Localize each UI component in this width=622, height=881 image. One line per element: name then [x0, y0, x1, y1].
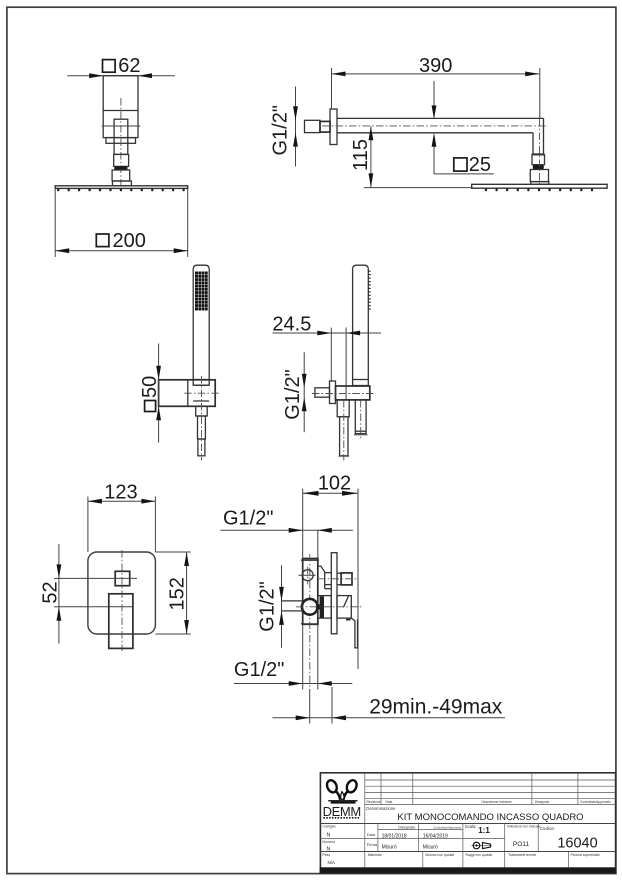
- dim 115 top arrow: [369, 126, 374, 140]
- hose: [198, 439, 205, 456]
- G1/2 left lower arrow: [279, 611, 284, 625]
- lever handle: [351, 618, 357, 648]
- stub square end: [341, 573, 352, 585]
- upper stub left of plate: [325, 572, 332, 574]
- dimension 390 line: [332, 73, 540, 75]
- logo dots row: [323, 817, 360, 819]
- ext 102 right long: [357, 489, 359, 669]
- svg-text:Materiale: Materiale: [368, 853, 382, 857]
- G1/2 bottom right arrow: [318, 681, 332, 686]
- sq50 lower arrow: [156, 406, 161, 420]
- denominazione row: [320, 823, 616, 825]
- body joint line: [193, 379, 209, 381]
- handle below holder: [355, 400, 366, 434]
- svg-text:Data: Data: [367, 832, 376, 837]
- arm tube bottom line: [337, 132, 533, 134]
- logo pedestal bar: [328, 800, 357, 801]
- horizontal centerline: [322, 125, 548, 127]
- sq25 leader upper: [433, 81, 435, 105]
- dimension 115 line: [370, 126, 372, 187]
- port stub lines: [282, 600, 303, 602]
- ext lines 152: [155, 551, 190, 553]
- 152 dim line: [186, 552, 188, 634]
- dim 390 left arrow: [332, 72, 346, 77]
- svg-text:Revisione: Revisione: [367, 800, 381, 804]
- dimension 62 left arrow: [89, 73, 103, 78]
- svg-text:25: 25: [469, 154, 491, 176]
- svg-text:Raggi non quotati: Raggi non quotati: [466, 853, 493, 857]
- title block outer border: [320, 773, 615, 873]
- elbow right edge: [543, 118, 545, 154]
- holder inner edge: [187, 380, 189, 407]
- svg-text:Cartiglio: Cartiglio: [322, 825, 335, 829]
- holder horizontal centerline: [312, 393, 375, 395]
- arm tube: [114, 119, 128, 154]
- ext line 24.5 left: [330, 328, 332, 382]
- ext line 24.5 right: [345, 328, 347, 400]
- centerline solid below: [309, 689, 311, 724]
- dark connector square: [316, 604, 320, 609]
- svg-text:62: 62: [118, 55, 140, 77]
- svg-text:52: 52: [40, 581, 62, 603]
- svg-text:115: 115: [350, 139, 372, 171]
- svg-text:Denominazione: Denominazione: [366, 806, 396, 811]
- svg-text:N: N: [327, 833, 331, 839]
- dimension square-62 text: [103, 60, 116, 73]
- DEMM logo mark: [325, 779, 358, 794]
- ext 102 left upper: [302, 489, 304, 559]
- svg-text:Finitura superficiale: Finitura superficiale: [571, 853, 601, 857]
- mid block right of plate: [337, 596, 351, 619]
- hand shower body: [193, 265, 209, 385]
- svg-text:Scala:: Scala:: [465, 824, 477, 829]
- 102 left arrow: [303, 491, 319, 496]
- 29-49 dim line: [272, 717, 505, 719]
- nipple thread block: [320, 121, 330, 132]
- handle cap line: [355, 430, 366, 432]
- wall flange side: [330, 381, 336, 404]
- tube joint line: [532, 153, 545, 155]
- spray face grid: [195, 272, 208, 311]
- svg-text:102: 102: [318, 473, 351, 495]
- holder body side: [336, 386, 370, 400]
- ball joint cup: [530, 170, 548, 182]
- handle end tick: [354, 434, 368, 436]
- head plate: [472, 184, 607, 188]
- sq25 shelf line: [434, 173, 494, 175]
- main vertical centerline: [309, 554, 311, 689]
- vertical centerline: [201, 376, 203, 460]
- body right edge upper ext: [317, 530, 319, 558]
- holder bracket: [159, 380, 216, 407]
- hose centerline: [343, 400, 345, 460]
- middle port circle: [302, 599, 318, 615]
- svg-text:29min.-49max: 29min.-49max: [369, 696, 503, 719]
- top port crosshair: [298, 574, 315, 576]
- drop tube nut: [532, 155, 545, 165]
- 52 dim line: [58, 544, 60, 644]
- svg-text:1:1: 1:1: [478, 826, 490, 835]
- dark joint band: [114, 166, 127, 170]
- projection symbol: [473, 842, 480, 849]
- wall flange: [330, 109, 337, 145]
- svg-text:50: 50: [139, 376, 161, 398]
- sq25 leader lower: [433, 147, 435, 174]
- lever tick: [346, 619, 351, 621]
- top port circle: [302, 570, 313, 581]
- mid block vertical dividers: [364, 824, 366, 852]
- dimension 200 line: [55, 250, 188, 252]
- revision rows: [365, 779, 616, 781]
- 29-49 right arrow: [332, 715, 346, 720]
- svg-text:Disegnato: Disegnato: [535, 800, 550, 804]
- sq50 dim line: [158, 344, 160, 443]
- handle taper: [198, 416, 206, 439]
- spray ticks: [368, 270, 370, 272]
- svg-text:Peso: Peso: [322, 853, 330, 857]
- svg-text:Numero: Numero: [322, 840, 335, 844]
- spray nozzles: [485, 188, 487, 191]
- svg-text:123: 123: [104, 482, 137, 504]
- svg-text:N: N: [327, 847, 331, 853]
- 52 text rotated: [40, 581, 62, 603]
- ext line 390 right: [539, 68, 541, 119]
- vertical centerline: [120, 98, 122, 185]
- G1/2 top dim line: [220, 529, 353, 531]
- 24.5 right arrow: [346, 331, 360, 336]
- 29-49 ext right: [331, 687, 333, 724]
- svg-text:Controllato/Approvato: Controllato/Approvato: [433, 825, 461, 829]
- wall plate side view: [331, 553, 337, 634]
- logo cell right edge: [364, 773, 366, 824]
- hose side: [340, 417, 348, 456]
- 52 upper arrow: [57, 564, 62, 578]
- G1/2 dim line: [303, 352, 305, 432]
- hose end tick: [339, 455, 350, 457]
- 123 left arrow: [88, 499, 102, 504]
- svg-text:PO11: PO11: [513, 841, 530, 848]
- nipple side: [315, 388, 330, 397]
- 102 right arrow: [342, 491, 358, 496]
- G1/2 vertical dim line: [295, 87, 297, 167]
- mid block horizontal dividers: [378, 828, 463, 830]
- connector base: [113, 181, 132, 186]
- svg-text:24.5: 24.5: [272, 314, 311, 336]
- 24.5 dim line: [273, 332, 382, 334]
- 102 dim line: [303, 492, 359, 494]
- wall nipple pipe: [305, 120, 321, 132]
- 52 lower arrow: [57, 607, 62, 621]
- valve body: [303, 559, 318, 625]
- body edges extended below: [302, 624, 304, 689]
- vertical centerline elbow: [539, 119, 541, 184]
- svg-text:Trattamenti termici: Trattamenti termici: [508, 853, 536, 857]
- 152 text rotated: [166, 577, 188, 610]
- G1/2 top left arrow: [289, 528, 303, 533]
- arm tube top line: [337, 117, 544, 119]
- mid block left of plate: [318, 596, 332, 619]
- svg-text:200: 200: [113, 230, 146, 252]
- upper stub right of plate: [337, 572, 341, 574]
- G1/2 upper arrow: [293, 106, 298, 120]
- svg-text:Misuró: Misuró: [423, 844, 438, 850]
- G1/2 label rotated: [282, 369, 304, 419]
- G1/2 lower arrow: [293, 133, 298, 147]
- svg-text:G1/2": G1/2": [223, 508, 273, 530]
- svg-text:Data: Data: [386, 800, 393, 804]
- dim 115 bottom arrow: [369, 173, 374, 187]
- drop tube left edge: [532, 133, 534, 154]
- svg-text:Misuró: Misuró: [382, 844, 397, 850]
- outlet stub: [337, 400, 349, 417]
- horizontal centerline: [184, 392, 219, 394]
- ext line 115 bottom: [364, 187, 472, 189]
- lower reference line: [54, 606, 133, 608]
- middle port horizontal centerline: [296, 606, 362, 608]
- plate centerline vertical: [121, 550, 123, 651]
- lever diagonal in block: [343, 596, 348, 608]
- grip joint lines: [193, 384, 209, 386]
- sq50 text rotated: [139, 376, 161, 412]
- handle block below holder: [196, 406, 208, 416]
- handle centerline: [360, 400, 362, 440]
- svg-text:16040: 16040: [557, 835, 597, 851]
- svg-text:16/04/2019: 16/04/2019: [423, 833, 448, 839]
- svg-text:N/A: N/A: [328, 860, 336, 865]
- 152 bottom arrow: [184, 620, 189, 634]
- svg-text:Codice:: Codice:: [540, 826, 555, 831]
- spray nozzles: [57, 188, 59, 191]
- ext lines 123: [87, 497, 89, 553]
- bottom row dividers: [364, 852, 366, 868]
- G1/2 upper arrow: [302, 374, 307, 388]
- upper reference line: [54, 577, 137, 579]
- dimension square-200 text: [96, 234, 109, 247]
- svg-text:DEMM: DEMM: [323, 804, 361, 819]
- svg-text:Descrizione revisione: Descrizione revisione: [482, 800, 513, 804]
- svg-text:G1/2": G1/2": [269, 105, 291, 155]
- tube nut: [114, 154, 129, 166]
- svg-text:152: 152: [166, 577, 188, 610]
- svg-text:A TERMINI DI LEGGE QUESTO DISE: A TERMINI DI LEGGE QUESTO DISEGNO NON PU…: [321, 868, 614, 873]
- dimension 62 line: [67, 75, 175, 77]
- dimension 200 left arrow: [55, 248, 69, 253]
- shower head plate: [55, 186, 188, 189]
- G1/2 label rotated: [269, 105, 291, 155]
- svg-text:G1/2": G1/2": [282, 369, 304, 419]
- mixer plate: [88, 552, 155, 634]
- body bottom flange: [301, 623, 319, 625]
- svg-text:KIT MONOCOMANDO INCASSO QUADRO: KIT MONOCOMANDO INCASSO QUADRO: [397, 812, 583, 823]
- extension lines for dim 200: [54, 188, 56, 257]
- 123 right arrow: [141, 499, 155, 504]
- svg-text:Disegnato: Disegnato: [398, 825, 415, 829]
- dim 390 right arrow: [525, 72, 539, 77]
- 29-49 left arrow: [296, 715, 310, 720]
- ball joint cup: [112, 170, 130, 181]
- disclaimer bar: [320, 867, 616, 873]
- 152 top arrow: [184, 552, 189, 566]
- mixer handle front: [109, 594, 133, 649]
- svg-text:Smussi non quotati: Smussi non quotati: [425, 853, 454, 857]
- svg-text:G1/2": G1/2": [256, 581, 278, 631]
- connector base: [531, 182, 549, 185]
- ceiling mount bottom lip: [106, 138, 136, 144]
- 24.5 left arrow: [317, 331, 331, 336]
- ext line 390 left: [331, 68, 333, 109]
- stub centerline: [318, 578, 356, 580]
- dark joint band: [533, 165, 544, 170]
- G1/2 left upper arrow: [279, 587, 284, 601]
- svg-text:G1/2": G1/2": [234, 659, 284, 681]
- dimension 200 right arrow: [174, 248, 188, 253]
- dimension 62 right arrow: [138, 73, 152, 78]
- G1/2 bottom dim line: [234, 683, 352, 685]
- svg-text:Tolleranze non indicate: Tolleranze non indicate: [507, 825, 541, 829]
- G1/2 lower arrow: [302, 397, 307, 411]
- cartridge step: [318, 566, 325, 573]
- 123 dim line: [88, 500, 155, 502]
- svg-text:Controllato/Approvato: Controllato/Approvato: [580, 800, 611, 804]
- G1/2 top right arrow: [318, 528, 332, 533]
- G1/2 bottom left arrow: [289, 681, 303, 686]
- centerline tick: [102, 125, 141, 127]
- svg-text:18/01/2018: 18/01/2018: [382, 833, 407, 839]
- ceiling mount box: [103, 76, 138, 138]
- sq50 upper arrow: [156, 366, 161, 380]
- svg-text:Firma: Firma: [367, 842, 378, 847]
- dimension square-25 text: [454, 158, 467, 171]
- dim 115 text rotated: [350, 139, 372, 171]
- G1/2 left label rotated: [256, 581, 278, 631]
- outlet square: [115, 571, 130, 585]
- G1/2 left dim line: [281, 565, 283, 648]
- body joint line: [353, 379, 369, 381]
- hand shower body side: [353, 265, 369, 385]
- body top flange: [301, 559, 319, 561]
